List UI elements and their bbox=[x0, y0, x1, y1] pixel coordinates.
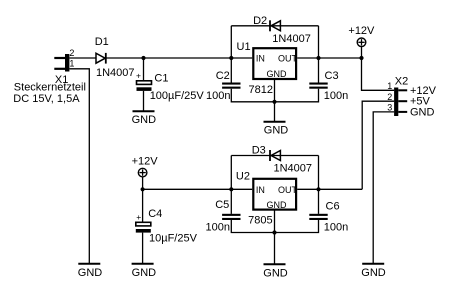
svg-text:+: + bbox=[136, 70, 141, 80]
junction node at C4 tap bbox=[141, 187, 145, 191]
svg-text:1: 1 bbox=[387, 81, 392, 91]
wire D1 cathode to U1 IN (through C1 and C2 taps) bbox=[106, 57, 252, 59]
diode D3 bbox=[270, 150, 280, 161]
wire D3 loop right vertical bbox=[318, 156, 320, 190]
svg-text:100n: 100n bbox=[324, 221, 348, 233]
svg-text:+12V: +12V bbox=[132, 155, 159, 167]
wire junction down to C3 bbox=[318, 58, 320, 83]
power flag +12V (stage 2) bbox=[138, 168, 147, 177]
svg-text:D3: D3 bbox=[252, 144, 266, 156]
X2 pin 3 right stub bbox=[398, 111, 407, 113]
regulator U2 body bbox=[253, 179, 296, 210]
ground symbol under X1 pin 1 bbox=[78, 263, 100, 265]
wire D3 loop top horizontal bbox=[231, 155, 318, 157]
svg-text:DC 15V, 1,5A: DC 15V, 1,5A bbox=[13, 93, 80, 105]
svg-text:OUT: OUT bbox=[278, 185, 298, 195]
svg-text:IN: IN bbox=[256, 54, 265, 64]
wire +12V flag to stage 2 rail bbox=[142, 177, 144, 190]
svg-text:GND: GND bbox=[263, 268, 288, 280]
wire X1 pin2 to D1 anode bbox=[69, 57, 96, 59]
wire U2 OUT up to X2 pin 2 (+5V) bbox=[362, 101, 394, 189]
ground symbol under U2 bbox=[264, 263, 286, 265]
svg-text:1N4007: 1N4007 bbox=[274, 162, 313, 174]
power flag +12V (stage 1) bbox=[357, 38, 366, 47]
wire U1 OUT to +12V node bbox=[297, 57, 361, 59]
svg-text:2: 2 bbox=[387, 92, 392, 102]
junction node at +12V tap bbox=[359, 56, 363, 60]
wire +12V node down and right to X2 pin 1 bbox=[362, 58, 395, 90]
capacitor C5 (100n) bbox=[222, 214, 240, 220]
wire C4 bottom to ground bbox=[142, 233, 144, 264]
ground symbol bottom right bbox=[362, 263, 384, 265]
X1 pin 1 stub bbox=[54, 68, 65, 70]
wire X1 pin 1 down to ground bbox=[69, 69, 89, 264]
wire stage 2 rail to U2 IN bbox=[143, 188, 253, 190]
svg-text:C5: C5 bbox=[215, 199, 229, 211]
wire junction down to C6 bbox=[318, 189, 320, 214]
capacitor C4 (electrolytic) bbox=[136, 222, 151, 232]
wire U1 GND pin down bbox=[274, 80, 276, 122]
svg-text:1N4007: 1N4007 bbox=[272, 33, 311, 45]
svg-text:C6: C6 bbox=[326, 201, 340, 213]
svg-text:10µF/25V: 10µF/25V bbox=[149, 233, 198, 245]
svg-text:+12V: +12V bbox=[348, 25, 375, 37]
svg-text:100n: 100n bbox=[206, 90, 230, 102]
wire junction down to C5 bbox=[230, 189, 232, 214]
wire junction down to C2 bbox=[230, 58, 232, 83]
svg-text:100n: 100n bbox=[324, 90, 348, 102]
svg-text:C2: C2 bbox=[216, 70, 230, 82]
svg-text:Steckernetzteil: Steckernetzteil bbox=[14, 82, 86, 94]
diode D2 bbox=[270, 20, 280, 31]
wire D2 loop left vertical bbox=[230, 26, 232, 58]
svg-text:+: + bbox=[136, 212, 141, 222]
regulator U1 body bbox=[253, 48, 296, 79]
X1 pin 2 stub bbox=[54, 57, 65, 59]
wire C5 bottom to stage 2 ground rail bbox=[231, 220, 274, 233]
capacitor C6 (100n) bbox=[309, 214, 327, 220]
wire U2 OUT to +5V riser bbox=[297, 188, 362, 190]
wire C3 bottom to ground rail bbox=[275, 89, 319, 102]
svg-text:1: 1 bbox=[69, 59, 74, 69]
junction node at C6 / D3 tap bbox=[316, 187, 320, 191]
svg-text:2: 2 bbox=[69, 48, 74, 58]
wire U2 GND pin down bbox=[274, 210, 276, 264]
svg-text:GND: GND bbox=[132, 267, 157, 279]
junction node at U2 input (C5 / D3 tap) bbox=[229, 187, 233, 191]
X2 pin 2 right stub bbox=[398, 100, 407, 102]
diode D1 bbox=[96, 53, 106, 64]
junction node at U1 ground bbox=[272, 100, 276, 104]
svg-text:GND: GND bbox=[78, 267, 103, 279]
wire D3 loop left vertical bbox=[230, 156, 232, 190]
svg-text:IN: IN bbox=[256, 185, 265, 195]
connector X1 body bbox=[65, 54, 69, 72]
ground symbol under C1 bbox=[133, 110, 155, 112]
svg-text:GND: GND bbox=[361, 267, 386, 279]
svg-text:GND: GND bbox=[264, 124, 289, 136]
svg-text:GND: GND bbox=[267, 69, 288, 79]
wire D2 loop top horizontal bbox=[231, 25, 318, 27]
wire junction to C4 top bbox=[142, 189, 144, 222]
ground symbol under U1 bbox=[264, 121, 286, 123]
ground symbol under C4 bbox=[132, 263, 154, 265]
junction node at U2 ground bbox=[272, 230, 276, 234]
svg-text:100µF/25V: 100µF/25V bbox=[150, 90, 205, 102]
svg-text:OUT: OUT bbox=[278, 54, 298, 64]
capacitor C1 (electrolytic) bbox=[137, 81, 152, 91]
capacitor C2 (100n) bbox=[222, 83, 240, 89]
wire +12V flag to rail bbox=[361, 47, 363, 59]
junction node at U1 input (C2 / D2 tap) bbox=[229, 56, 233, 60]
junction node at C3 / D2 tap bbox=[316, 56, 320, 60]
svg-text:100n: 100n bbox=[206, 221, 230, 233]
X2 pin 1 right stub bbox=[398, 89, 407, 91]
svg-text:X2: X2 bbox=[395, 75, 408, 87]
wire D2 loop right vertical bbox=[318, 26, 320, 58]
svg-text:D2: D2 bbox=[253, 15, 267, 27]
capacitor C3 (100n) bbox=[309, 83, 327, 89]
svg-text:1N4007: 1N4007 bbox=[96, 67, 135, 79]
wire C2 bottom to ground rail bbox=[231, 89, 274, 102]
junction node at C1 tap bbox=[141, 56, 145, 60]
svg-text:GND: GND bbox=[410, 106, 435, 118]
connector X2 body bbox=[394, 88, 398, 117]
wire C6 bottom to stage 2 ground rail bbox=[275, 220, 319, 233]
svg-text:U2: U2 bbox=[236, 170, 250, 182]
svg-text:D1: D1 bbox=[95, 36, 109, 48]
svg-text:C1: C1 bbox=[154, 73, 168, 85]
svg-text:GND: GND bbox=[132, 114, 157, 126]
wire C1 bottom to ground bbox=[143, 91, 145, 111]
svg-text:7805: 7805 bbox=[248, 214, 272, 226]
svg-text:C4: C4 bbox=[148, 208, 162, 220]
wire X2 pin 3 to bottom right ground bbox=[373, 112, 394, 264]
svg-text:GND: GND bbox=[267, 200, 288, 210]
svg-text:C3: C3 bbox=[325, 70, 339, 82]
svg-text:7812: 7812 bbox=[249, 84, 273, 96]
wire junction to C1 top bbox=[143, 58, 145, 81]
svg-text:U1: U1 bbox=[237, 41, 251, 53]
svg-text:3: 3 bbox=[387, 103, 392, 113]
